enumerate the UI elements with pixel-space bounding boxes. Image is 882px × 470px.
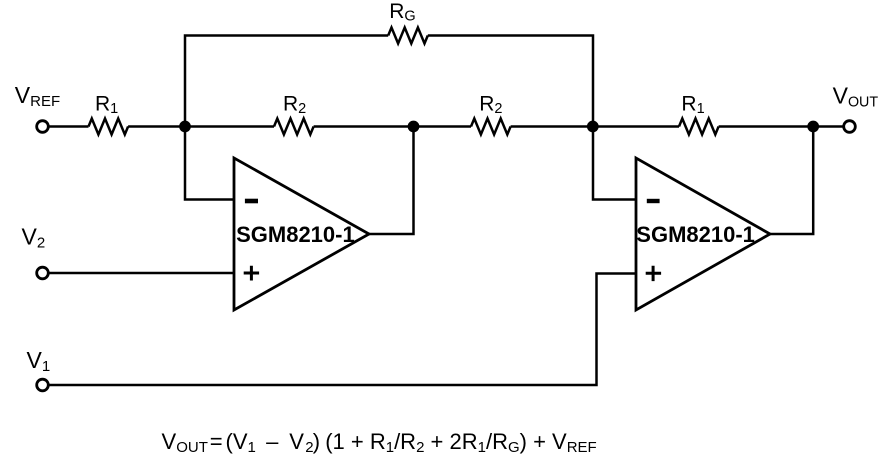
svg-text:R1: R1 [681, 93, 704, 118]
node A [179, 121, 191, 133]
wire node C to U2 inverting input [593, 127, 636, 200]
wire U2 output to node D [770, 127, 813, 235]
op-amp U2 [636, 158, 770, 310]
wire V2 to U1 non-inverting input [48, 272, 234, 275]
terminal V1 [37, 379, 49, 391]
svg-text:V1: V1 [27, 347, 51, 375]
wire R1 to node D [719, 125, 814, 128]
op-amp U1 [234, 158, 369, 310]
wire node C to R1 (right) [593, 125, 679, 128]
wire node B to R2 (right) [414, 125, 472, 128]
svg-text:SGM8210-1: SGM8210-1 [636, 222, 755, 247]
svg-text:R1: R1 [95, 93, 118, 118]
wire V1 to U2 non-inverting input [48, 274, 636, 386]
wire R2 to node C [511, 125, 593, 128]
svg-text:VOUT: VOUT [833, 82, 879, 110]
wire VREF to R1 [48, 125, 88, 128]
wire node A to U1 inverting input [185, 127, 234, 200]
wire node A to R2 [185, 125, 274, 128]
wire R2 to node B [314, 125, 414, 128]
svg-text:VOUT=(V1–V2)(1 + R1/R2 + 2R1/R: VOUT=(V1–V2)(1 + R1/R2 + 2R1/RG) + VREF [162, 429, 597, 456]
U1 non-inverting input plus sign [244, 266, 259, 281]
svg-text:RG: RG [389, 0, 415, 25]
wire U1 output to node B [369, 127, 414, 235]
terminal V2 [37, 267, 49, 279]
svg-text:R2: R2 [283, 93, 306, 118]
resistor R2 (right) [471, 119, 511, 135]
wire node A to RG (feedback up and right) [185, 36, 388, 127]
svg-text:SGM8210-1: SGM8210-1 [236, 222, 355, 247]
resistor R1 (left) [89, 119, 129, 135]
node C [587, 121, 599, 133]
svg-text:R2: R2 [479, 93, 502, 118]
terminal VOUT [844, 121, 856, 133]
wire RG to node C (feedback right and down) [428, 36, 593, 127]
U2 inverting input minus sign [647, 199, 660, 203]
U2 non-inverting input plus sign [646, 266, 661, 281]
node D [807, 121, 819, 133]
terminal VREF [37, 121, 49, 133]
node B [408, 121, 420, 133]
resistor RG [388, 28, 428, 44]
resistor R1 (right) [679, 119, 719, 135]
svg-text:VREF: VREF [15, 82, 60, 110]
U1 inverting input minus sign [245, 199, 258, 204]
svg-text:V2: V2 [22, 224, 46, 252]
wire node D to VOUT terminal [813, 125, 844, 128]
resistor R2 (left) [274, 119, 314, 135]
wire R1 to node A [128, 125, 185, 128]
